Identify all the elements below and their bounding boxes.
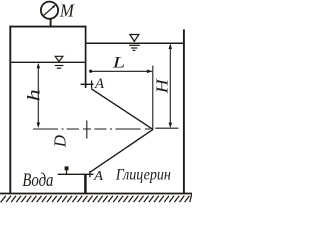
svg-text:Вода: Вода xyxy=(22,171,53,191)
valve stem xyxy=(66,170,68,174)
upper pipe diagonal xyxy=(91,89,152,129)
svg-text:Глицерин: Глицерин xyxy=(115,167,171,184)
manometer U-gauge M circle xyxy=(41,2,58,19)
water line in tank xyxy=(10,61,85,63)
svg-text:h: h xyxy=(24,89,44,101)
H arrow up xyxy=(169,44,173,49)
point A lower tick xyxy=(89,171,91,178)
centerline cross tick xyxy=(86,121,88,139)
h arrow down xyxy=(37,123,41,128)
right nabla under-bar 2 xyxy=(131,47,137,49)
manometer needle arrowhead xyxy=(52,4,56,8)
ground line xyxy=(0,193,192,195)
tank top wall xyxy=(9,26,86,28)
valve square marker xyxy=(65,166,69,170)
H arrow down xyxy=(169,123,173,128)
outlet vertical pipe xyxy=(84,174,87,193)
manometer needle xyxy=(43,7,54,16)
ground hatching xyxy=(1,194,192,203)
right tank wall xyxy=(183,29,185,193)
L left dot end xyxy=(89,70,92,73)
L right arrow xyxy=(147,70,152,74)
h arrow up xyxy=(37,63,41,68)
glycerin surface line xyxy=(86,42,184,44)
left nabla under-bar 1 xyxy=(55,65,64,67)
svg-text:A: A xyxy=(94,76,105,92)
L dimension line xyxy=(92,70,152,72)
svg-text:H: H xyxy=(153,78,172,94)
left free-surface symbol nabla xyxy=(55,56,63,61)
right nabla under-bar 3 xyxy=(133,49,136,51)
outlet horizontal line xyxy=(58,173,94,175)
right nabla under-bar 1 xyxy=(129,44,140,46)
point A upper cross xyxy=(81,81,94,89)
svg-text:M: M xyxy=(59,0,75,20)
apex level reference line xyxy=(155,127,178,129)
pipe axis centerline (dash-dot) xyxy=(33,128,151,130)
extension line from apex up through L xyxy=(152,66,154,131)
svg-text:A: A xyxy=(93,169,104,184)
tank left wall xyxy=(9,26,11,194)
svg-text:L: L xyxy=(111,54,125,71)
right free-surface symbol nabla xyxy=(130,35,139,42)
lower pipe diagonal xyxy=(90,130,152,172)
h dimension line xyxy=(37,65,39,127)
tank right wall xyxy=(85,26,87,88)
left nabla under-bar 2 xyxy=(57,67,61,69)
H dimension line xyxy=(169,45,171,127)
svg-text:D: D xyxy=(50,134,69,148)
manometer stem xyxy=(50,19,52,27)
